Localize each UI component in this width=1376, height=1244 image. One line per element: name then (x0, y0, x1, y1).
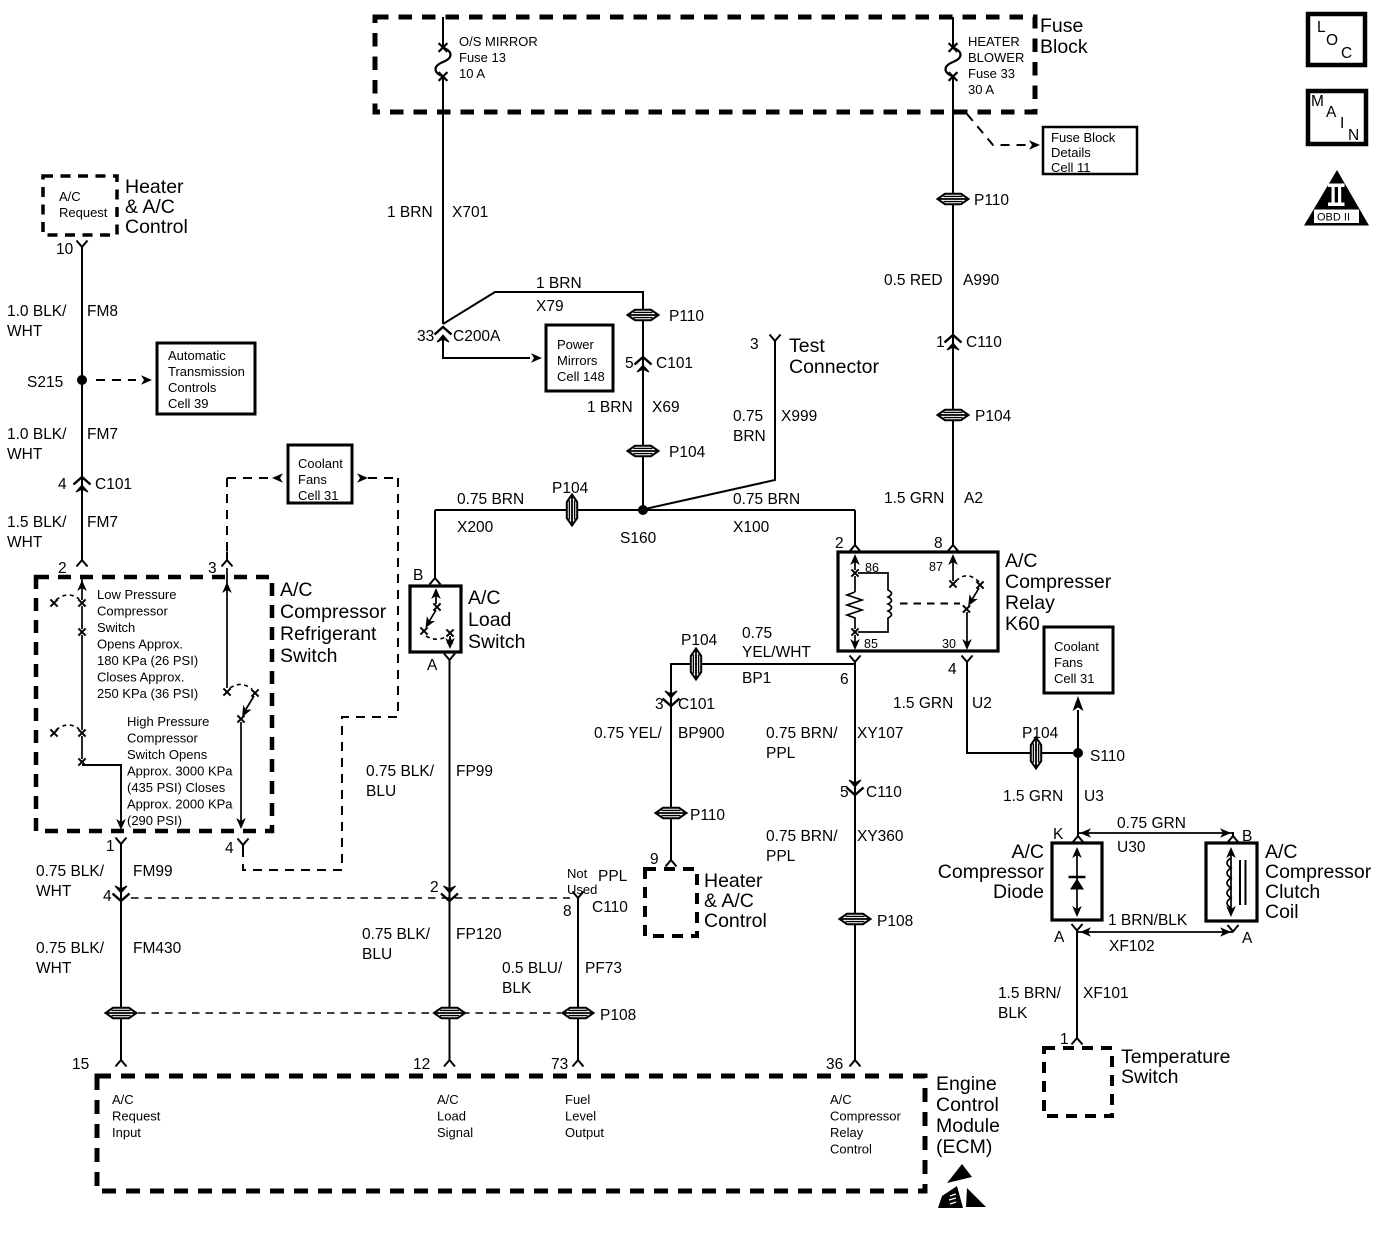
fuse block (dashed box) (375, 17, 1035, 112)
svg-text:& A/C: & A/C (125, 196, 175, 218)
connector C101 pin 5 (635, 357, 652, 372)
svg-text:Switch Opens: Switch Opens (127, 747, 208, 762)
svg-text:1.5 GRN: 1.5 GRN (884, 490, 944, 507)
LOC symbol (1308, 14, 1365, 65)
svg-text:X69: X69 (652, 399, 680, 416)
svg-text:0.75 BRN: 0.75 BRN (733, 491, 800, 508)
svg-text:P110: P110 (690, 807, 725, 824)
coolant fans cell 31 box (right) (1044, 627, 1113, 693)
svg-text:A2: A2 (964, 490, 983, 507)
svg-text:Connector: Connector (789, 356, 879, 378)
svg-text:HEATER: HEATER (968, 34, 1020, 49)
svg-text:A/C: A/C (468, 587, 501, 609)
svg-text:X100: X100 (733, 519, 770, 536)
svg-text:(290 PSI): (290 PSI) (127, 813, 182, 828)
relay K60 box (838, 552, 998, 651)
svg-text:5: 5 (625, 355, 634, 372)
connector C101 pin 4 (74, 477, 91, 492)
svg-text:WHT: WHT (7, 534, 43, 551)
svg-text:Compresser: Compresser (1005, 571, 1112, 593)
svg-text:L: L (1317, 19, 1326, 36)
power mirrors cell 148 box (546, 325, 613, 391)
svg-text:0.75 BRN/: 0.75 BRN/ (766, 725, 838, 742)
svg-text:High Pressure: High Pressure (127, 714, 209, 729)
relay actuation dashed link (900, 603, 960, 605)
svg-text:K60: K60 (1005, 613, 1040, 635)
svg-text:BP900: BP900 (678, 725, 725, 742)
wire 0.75 BRN X999 (645, 349, 775, 509)
svg-text:4: 4 (225, 840, 234, 857)
svg-text:36: 36 (826, 1056, 843, 1073)
wire X100 corner to relay pin 2 (854, 510, 856, 537)
svg-text:87: 87 (929, 560, 943, 574)
wire from fuse block top to fuse F13 (442, 17, 444, 46)
svg-text:Heater: Heater (704, 870, 763, 892)
svg-text:Switch: Switch (468, 631, 525, 653)
svg-text:Fuse 33: Fuse 33 (968, 66, 1015, 81)
grommet P110 (628, 310, 659, 320)
svg-text:0.75: 0.75 (733, 408, 763, 425)
svg-text:Temperature: Temperature (1121, 1046, 1230, 1068)
svg-text:A/C: A/C (1011, 841, 1044, 863)
wire arrow from S110 up to coolant fans (1077, 710, 1079, 753)
svg-text:C110: C110 (866, 784, 902, 801)
svg-text:Compressor: Compressor (280, 601, 387, 623)
svg-text:250 KPa (36 PSI): 250 KPa (36 PSI) (97, 686, 198, 701)
grommet P108 (middle) (434, 1008, 465, 1018)
svg-text:Power: Power (557, 337, 595, 352)
svg-text:BLU: BLU (366, 783, 396, 800)
svg-text:FM7: FM7 (87, 426, 118, 443)
svg-text:Compressor: Compressor (127, 731, 198, 746)
low pressure switch (81, 577, 83, 600)
svg-text:Relay: Relay (830, 1125, 864, 1140)
svg-text:5: 5 (840, 784, 849, 801)
svg-text:Compressor: Compressor (1265, 861, 1372, 883)
svg-text:Fuse 13: Fuse 13 (459, 50, 506, 65)
svg-text:A/C: A/C (830, 1092, 852, 1107)
temperature switch (dashed box) (1044, 1048, 1112, 1116)
svg-text:YEL/WHT: YEL/WHT (742, 644, 811, 661)
grommet P110 (656, 808, 687, 818)
svg-text:Switch: Switch (97, 620, 135, 635)
svg-text:Low Pressure: Low Pressure (97, 587, 176, 602)
svg-text:0.75 BLK/: 0.75 BLK/ (36, 863, 105, 880)
svg-text:Module: Module (936, 1115, 1000, 1137)
svg-text:& A/C: & A/C (704, 890, 754, 912)
svg-text:P110: P110 (669, 308, 704, 325)
wire PF73 (577, 906, 579, 1052)
svg-text:FM430: FM430 (133, 940, 182, 957)
svg-text:U30: U30 (1117, 839, 1146, 856)
svg-text:10 A: 10 A (459, 66, 485, 81)
svg-text:I: I (1340, 115, 1344, 132)
svg-text:Opens Approx.: Opens Approx. (97, 637, 183, 652)
svg-text:Refrigerant: Refrigerant (280, 623, 377, 645)
svg-text:A: A (1054, 929, 1065, 946)
svg-text:FP120: FP120 (456, 926, 502, 943)
svg-text:Control: Control (125, 216, 188, 238)
svg-text:0.5 BLU/: 0.5 BLU/ (502, 960, 563, 977)
svg-text:Controls: Controls (168, 380, 217, 395)
svg-text:Approx. 3000 KPa: Approx. 3000 KPa (127, 764, 233, 779)
svg-text:C: C (1341, 45, 1352, 62)
svg-text:1.0 BLK/: 1.0 BLK/ (7, 426, 67, 443)
svg-text:Heater: Heater (125, 176, 184, 198)
svg-text:1 BRN: 1 BRN (387, 204, 433, 221)
svg-text:8: 8 (934, 535, 943, 552)
svg-text:U3: U3 (1084, 788, 1104, 805)
svg-text:73: 73 (551, 1056, 568, 1073)
splice node S110 (1073, 748, 1083, 758)
A/C load switch box (410, 586, 461, 652)
pin 4 terminal (962, 656, 973, 671)
svg-text:S110: S110 (1090, 748, 1125, 765)
svg-text:S160: S160 (620, 530, 657, 547)
svg-text:Coil: Coil (1265, 901, 1299, 923)
load switch internals (435, 590, 437, 604)
svg-text:PPL: PPL (766, 848, 796, 865)
splice node S160 (638, 505, 648, 515)
wire 0.75 GRN U30 (1078, 832, 1233, 834)
svg-text:Used: Used (567, 882, 597, 897)
wire 1.5 GRN U2 (967, 664, 1073, 753)
svg-text:1: 1 (936, 334, 945, 351)
svg-text:P104: P104 (975, 408, 1012, 425)
svg-text:A/C: A/C (437, 1092, 459, 1107)
fuse F33 HEATER BLOWER 30A (946, 43, 961, 81)
svg-text:0.75 YEL/: 0.75 YEL/ (594, 725, 662, 742)
svg-text:Fuse: Fuse (1040, 15, 1083, 37)
svg-text:30: 30 (942, 637, 956, 651)
svg-text:Request: Request (112, 1109, 161, 1124)
svg-text:Request: Request (59, 205, 108, 220)
svg-text:1.5 BRN/: 1.5 BRN/ (998, 985, 1062, 1002)
wire 0.5 RED A990 / 1.5 GRN A2 (952, 77, 954, 537)
svg-text:FM99: FM99 (133, 863, 173, 880)
svg-text:6: 6 (840, 671, 849, 688)
svg-text:Switch: Switch (280, 645, 337, 667)
svg-text:Signal: Signal (437, 1125, 473, 1140)
svg-text:Closes Approx.: Closes Approx. (97, 670, 184, 685)
svg-text:Test: Test (789, 335, 825, 357)
wire 1 BRN X701 (442, 77, 444, 324)
pin 6 terminal (850, 656, 861, 671)
svg-text:BP1: BP1 (742, 670, 771, 687)
svg-text:Block: Block (1040, 36, 1088, 58)
svg-text:1.5 BLK/: 1.5 BLK/ (7, 514, 67, 531)
svg-text:WHT: WHT (7, 323, 43, 340)
dashed tie line upper (131, 897, 570, 899)
svg-text:PF73: PF73 (585, 960, 622, 977)
svg-text:Load: Load (437, 1109, 466, 1124)
svg-text:0.75: 0.75 (742, 625, 772, 642)
svg-text:1: 1 (106, 838, 115, 855)
wire 1.5 GRN U3 (1077, 753, 1079, 833)
wire branch 1 BRN X79 (443, 292, 643, 324)
svg-text:2: 2 (58, 560, 67, 577)
grommet P104 (938, 410, 969, 420)
coolant fans cell 31 box (288, 445, 352, 503)
grommet P104 inline (691, 649, 701, 680)
grommet P104 inline (1031, 738, 1041, 769)
svg-text:P108: P108 (877, 913, 913, 930)
svg-text:B: B (413, 567, 423, 584)
svg-text:BLK: BLK (998, 1005, 1028, 1022)
svg-text:C200A: C200A (453, 328, 501, 345)
svg-text:WHT: WHT (36, 960, 72, 977)
svg-text:K: K (1053, 826, 1064, 843)
svg-text:Switch: Switch (1121, 1066, 1178, 1088)
svg-text:P110: P110 (974, 192, 1009, 209)
wire 1.5 BRN/BLK XF101 (1076, 932, 1078, 1030)
wire X69 down to S160 (642, 292, 644, 510)
svg-text:1.5 GRN: 1.5 GRN (1003, 788, 1063, 805)
svg-text:O/S MIRROR: O/S MIRROR (459, 34, 538, 49)
svg-text:WHT: WHT (36, 883, 72, 900)
svg-text:M: M (1311, 93, 1324, 110)
automatic transmission controls cell 39 box (157, 343, 255, 414)
svg-text:Fuel: Fuel (565, 1092, 590, 1107)
svg-text:1: 1 (1060, 1031, 1069, 1048)
svg-text:C110: C110 (966, 334, 1002, 351)
svg-text:A/C: A/C (1265, 841, 1298, 863)
svg-text:33: 33 (417, 328, 434, 345)
svg-text:9: 9 (650, 851, 659, 868)
svg-text:P104: P104 (669, 444, 706, 461)
dashed reference wire right of coolant fans box (357, 473, 368, 483)
wire FP99/FP120 down to ECM (449, 664, 451, 1052)
svg-text:Cell 148: Cell 148 (557, 369, 605, 384)
svg-text:U2: U2 (972, 695, 992, 712)
refrigerant switch (dashed box) (36, 577, 272, 831)
svg-text:1 BRN: 1 BRN (587, 399, 633, 416)
svg-text:XF101: XF101 (1083, 985, 1129, 1002)
svg-text:Coolant: Coolant (298, 456, 343, 471)
grommet P104 inline (567, 495, 577, 526)
svg-text:Cell 11: Cell 11 (1051, 160, 1091, 175)
high pressure coolant-fan switch (middle) (226, 568, 228, 688)
svg-text:Clutch: Clutch (1265, 881, 1320, 903)
grommet P108 (left) (106, 1008, 137, 1018)
dashed reference wire left of coolant fans box (227, 477, 268, 479)
svg-text:P104: P104 (681, 632, 718, 649)
svg-text:(ECM): (ECM) (936, 1136, 992, 1158)
grommet P108 (840, 914, 871, 924)
svg-text:C101: C101 (95, 476, 132, 493)
svg-text:0.75 GRN: 0.75 GRN (1117, 815, 1186, 832)
svg-text:FM7: FM7 (87, 514, 118, 531)
svg-text:3: 3 (208, 560, 217, 577)
svg-text:10: 10 (56, 241, 74, 258)
svg-text:Fans: Fans (1054, 655, 1083, 670)
svg-text:P104: P104 (552, 480, 589, 497)
clutch coil internals (1230, 851, 1232, 913)
svg-text:A/C: A/C (112, 1092, 134, 1107)
wire 1 BRN/BLK XF102 (1077, 931, 1233, 933)
svg-text:C101: C101 (678, 696, 715, 713)
svg-text:C101: C101 (656, 355, 693, 372)
svg-text:Automatic: Automatic (168, 348, 226, 363)
svg-text:A: A (1326, 104, 1337, 121)
pin 8 C110 terminal (573, 892, 584, 907)
svg-text:XY107: XY107 (857, 725, 904, 742)
svg-text:FM8: FM8 (87, 303, 118, 320)
MAIN symbol (1308, 91, 1366, 144)
svg-text:A990: A990 (963, 272, 1000, 289)
svg-text:4: 4 (103, 888, 112, 905)
svg-text:X200: X200 (457, 519, 494, 536)
svg-text:XY360: XY360 (857, 828, 904, 845)
connector pin 4 inline (113, 886, 130, 901)
svg-text:3: 3 (655, 696, 664, 713)
svg-text:15: 15 (72, 1056, 89, 1073)
svg-text:WHT: WHT (7, 446, 43, 463)
svg-text:8: 8 (563, 903, 572, 920)
svg-text:X79: X79 (536, 298, 564, 315)
connector C101 pin 3 (663, 691, 680, 706)
ESD sensitive device symbol (938, 1164, 986, 1208)
A/C compressor clutch coil box (1206, 843, 1257, 921)
svg-text:A: A (427, 657, 438, 674)
OBD II symbol (1304, 170, 1369, 226)
relay switch branch (952, 556, 954, 581)
diode internals (1076, 851, 1078, 913)
heater & A/C control (dashed box) (645, 869, 697, 936)
svg-text:Control: Control (936, 1094, 999, 1116)
svg-text:Engine: Engine (936, 1073, 997, 1095)
svg-text:0.75 BLK/: 0.75 BLK/ (366, 763, 435, 780)
svg-text:C110: C110 (592, 899, 628, 916)
svg-text:BLU: BLU (362, 946, 392, 963)
wire FM8/FM7 down left side (81, 254, 83, 552)
dashed reference arrow to automatic transmission controls (96, 379, 136, 381)
svg-text:BLK: BLK (502, 980, 532, 997)
svg-text:A/C: A/C (280, 579, 313, 601)
svg-text:FP99: FP99 (456, 763, 493, 780)
wire FM99/FM430 (120, 852, 122, 1052)
svg-text:12: 12 (413, 1056, 430, 1073)
svg-text:P104: P104 (1022, 725, 1059, 742)
wire 0.75 YEL/WHT BP1 (671, 664, 855, 852)
svg-text:Mirrors: Mirrors (557, 353, 598, 368)
svg-text:0.75 BRN/: 0.75 BRN/ (766, 828, 838, 845)
svg-text:PPL: PPL (598, 868, 628, 885)
svg-text:PPL: PPL (766, 745, 796, 762)
svg-text:Relay: Relay (1005, 592, 1055, 614)
svg-text:Fuse Block: Fuse Block (1051, 130, 1116, 145)
svg-text:1.5 GRN: 1.5 GRN (893, 695, 953, 712)
A/C compressor diode box (1052, 843, 1102, 920)
wire X200/X100 (435, 509, 855, 511)
svg-text:BRN: BRN (733, 428, 766, 445)
grommet P108 (right) (563, 1008, 594, 1018)
svg-text:X701: X701 (452, 204, 488, 221)
svg-text:Compressor: Compressor (830, 1109, 901, 1124)
svg-text:Details: Details (1051, 145, 1091, 160)
engine control module (dashed box) (97, 1076, 925, 1191)
svg-text:Compressor: Compressor (97, 604, 168, 619)
svg-text:30 A: 30 A (968, 82, 994, 97)
svg-text:BLOWER: BLOWER (968, 50, 1024, 65)
svg-text:O: O (1326, 32, 1338, 49)
svg-text:Output: Output (565, 1125, 604, 1140)
svg-text:1.0 BLK/: 1.0 BLK/ (7, 303, 67, 320)
svg-text:Approx. 2000 KPa: Approx. 2000 KPa (127, 797, 233, 812)
svg-text:N: N (1348, 127, 1359, 144)
svg-text:Cell 31: Cell 31 (1054, 671, 1094, 686)
svg-text:Coolant: Coolant (1054, 639, 1099, 654)
svg-text:Fans: Fans (298, 472, 327, 487)
fuse block details cell 11 box (1043, 127, 1137, 174)
splice node S215 (77, 375, 87, 385)
connector C200A pin 33 (435, 327, 452, 342)
svg-text:Cell 31: Cell 31 (298, 488, 338, 503)
svg-text:0.75 BLK/: 0.75 BLK/ (362, 926, 431, 943)
svg-text:1 BRN: 1 BRN (536, 275, 582, 292)
svg-text:Compressor: Compressor (938, 861, 1045, 883)
svg-text:0.75 BLK/: 0.75 BLK/ (36, 940, 105, 957)
svg-text:2: 2 (430, 879, 439, 896)
relay coil winding (858, 573, 892, 632)
svg-text:A: A (1242, 930, 1253, 947)
svg-text:0.75 BRN: 0.75 BRN (457, 491, 524, 508)
svg-text:3: 3 (750, 336, 759, 353)
dashed tie line lower (138, 1012, 561, 1014)
grommet P104 (628, 446, 659, 456)
heater & A/C control A/C request (dashed box) (43, 176, 117, 235)
relay coil branch (854, 556, 856, 570)
wire jog to pin 1 (82, 765, 121, 826)
svg-text:OBD II: OBD II (1317, 212, 1350, 224)
dashed reference arrow to fuse block details (967, 114, 1026, 145)
svg-text:4: 4 (948, 661, 957, 678)
svg-text:Control: Control (830, 1142, 872, 1157)
svg-text:85: 85 (864, 637, 878, 651)
wire down to ECM pin 36 (854, 664, 856, 1052)
svg-text:Transmission: Transmission (168, 364, 245, 379)
svg-text:0.5 RED: 0.5 RED (884, 272, 943, 289)
svg-text:Diode: Diode (993, 881, 1044, 903)
svg-text:(435 PSI) Closes: (435 PSI) Closes (127, 780, 226, 795)
wire arrow to power mirrors (443, 338, 530, 358)
grommet P110 (938, 194, 969, 204)
svg-text:2: 2 (835, 535, 844, 552)
svg-text:180 KPa (26 PSI): 180 KPa (26 PSI) (97, 653, 198, 668)
svg-text:Level: Level (565, 1109, 596, 1124)
connector C110 pin 1 (945, 335, 962, 350)
svg-text:A/C: A/C (59, 189, 81, 204)
svg-text:A/C: A/C (1005, 550, 1038, 572)
svg-text:S215: S215 (27, 374, 63, 391)
svg-text:Cell 39: Cell 39 (168, 396, 208, 411)
wire to pin B (434, 510, 436, 570)
fuse F13 O/S MIRROR 10A (436, 43, 451, 81)
svg-text:4: 4 (58, 476, 67, 493)
svg-text:1 BRN/BLK: 1 BRN/BLK (1108, 912, 1188, 929)
wire from fuse block top to fuse F33 (952, 17, 954, 46)
svg-text:Input: Input (112, 1125, 141, 1140)
svg-text:Load: Load (468, 609, 511, 631)
connector pin 2 inline (441, 886, 458, 901)
connector C110 pin 5 (847, 780, 864, 795)
svg-text:XF102: XF102 (1109, 938, 1155, 955)
svg-text:Control: Control (704, 910, 767, 932)
high pressure switch (left) (81, 635, 83, 730)
svg-text:P108: P108 (600, 1007, 636, 1024)
svg-text:X999: X999 (781, 408, 817, 425)
svg-text:Not: Not (567, 866, 588, 881)
